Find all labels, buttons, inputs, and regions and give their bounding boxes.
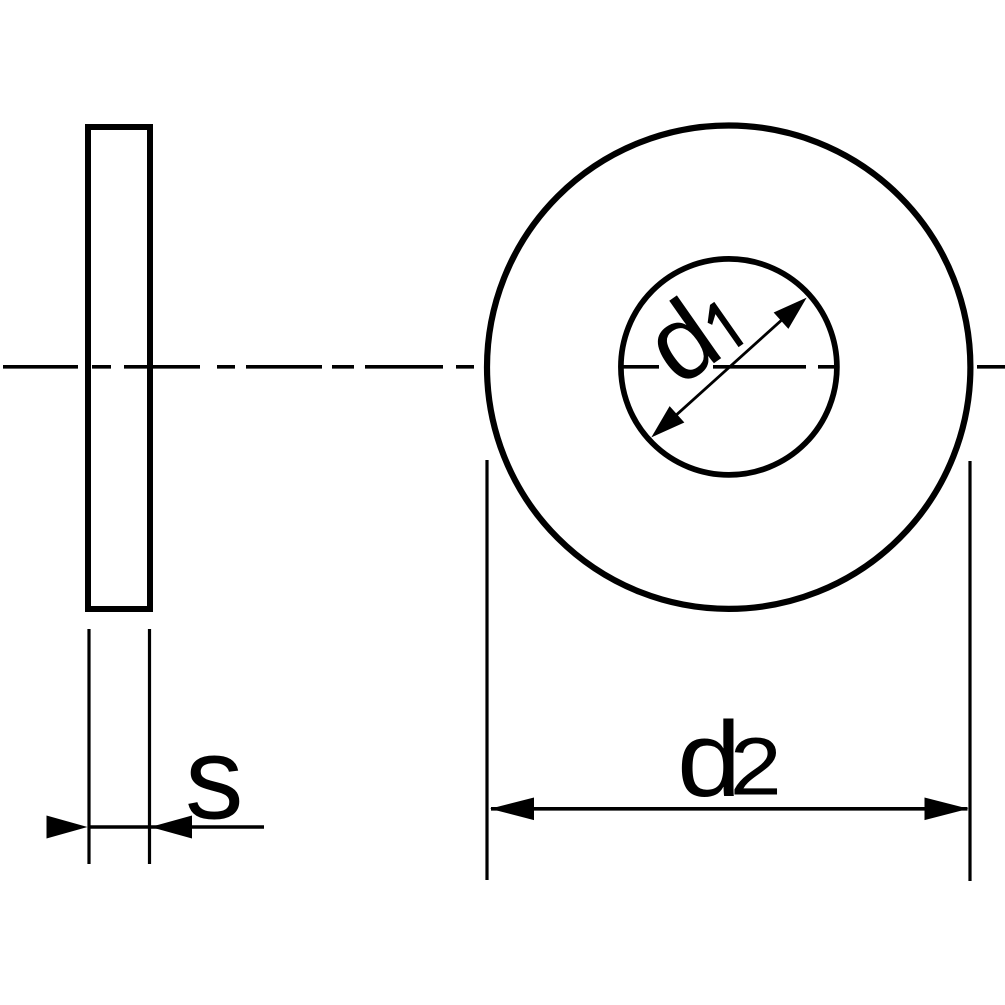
arrowhead d2 right: [925, 798, 969, 821]
washer inner circle (hole): [621, 259, 837, 475]
extension line left (s): [87, 629, 90, 864]
label d1: [624, 265, 756, 407]
d1 diameter arrow (double-headed, diagonal): [644, 289, 814, 445]
extension line left (d2): [485, 460, 488, 880]
extension line right (s): [148, 629, 151, 864]
centerline (horizontal dash-dot axis): [3, 365, 1005, 369]
label d2: [677, 699, 741, 819]
svg-text:s: s: [185, 713, 244, 844]
svg-text:2: 2: [730, 720, 782, 812]
extension line right (d2): [968, 461, 971, 881]
arrowhead s right (pointing left): [151, 816, 193, 839]
dimension line s (tail to the right): [88, 825, 264, 829]
arrowhead d2 left: [490, 798, 534, 821]
arrowhead s left (outside, pointing right): [47, 816, 88, 839]
dimension line d2: [491, 807, 968, 811]
washer side-view outline (rectangle): [88, 127, 150, 609]
washer outer circle: [487, 126, 970, 609]
